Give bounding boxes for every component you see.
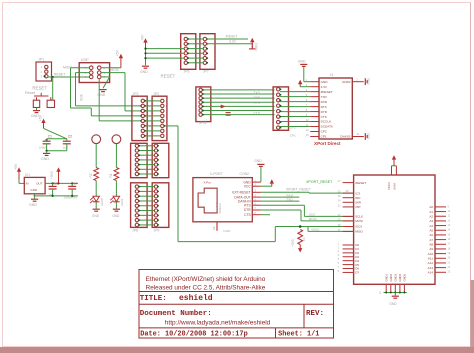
- wire: [95, 181, 97, 197]
- svg-text:IN: IN: [26, 181, 29, 185]
- XPort module X1: [319, 78, 352, 139]
- svg-text:JP10: JP10: [199, 121, 207, 125]
- svg-text:+3V3: +3V3: [291, 239, 295, 247]
- svg-text:C4: C4: [73, 181, 77, 185]
- svg-text:JP1: JP1: [38, 58, 44, 62]
- svg-text:A14: A14: [428, 270, 434, 274]
- svg-text:CHASS: CHASS: [340, 135, 351, 139]
- wires JP6-JP7: [188, 38, 204, 40]
- wire: [95, 202, 97, 208]
- pushbutton S1: [33, 100, 39, 107]
- svg-text:C3: C3: [54, 181, 58, 185]
- svg-text:LINK: LINK: [224, 229, 232, 233]
- +5V supply arrow at ICSP: [101, 67, 121, 69]
- connector JP1: [36, 62, 52, 81]
- svg-text:VCC: VCC: [244, 184, 252, 188]
- ground below LED1: [113, 208, 120, 210]
- title block: [139, 270, 334, 339]
- ethernet socket CON2: [193, 178, 252, 222]
- connector JP5 power: [152, 143, 169, 177]
- svg-text:GND: GND: [41, 157, 49, 161]
- svg-text:JP7: JP7: [203, 69, 209, 73]
- capacitor C5: [226, 112, 231, 114]
- connector ICSP: [79, 63, 109, 83]
- svg-text:GND: GND: [140, 70, 148, 74]
- svg-text:DTR: DTR: [244, 208, 251, 212]
- svg-text:100uF: 100uF: [39, 146, 48, 150]
- +3V3 arrow at X1: [299, 83, 301, 87]
- wire: [115, 202, 117, 208]
- +3V3 supply arrow at regulator: [58, 171, 60, 184]
- svg-text:DCDATA: DCDATA: [321, 125, 334, 129]
- svg-text:Released under CC 2.5, Attrib/: Released under CC 2.5, Attrib/Share-Alik…: [146, 285, 266, 292]
- +3V3 arrow above U2: [391, 166, 393, 175]
- connector JP8 analog: [131, 183, 148, 228]
- svg-text:/RD: /RD: [355, 196, 361, 200]
- svg-text:GND: GND: [92, 214, 100, 218]
- wire JP3 to bus: [164, 125, 178, 127]
- svg-text:MOSI: MOSI: [309, 217, 317, 221]
- +3V3 arrow at CON2 VCC: [261, 185, 272, 187]
- wire: [95, 144, 97, 168]
- svg-text:SCLK: SCLK: [355, 215, 363, 219]
- svg-text:/RESET: /RESET: [355, 181, 366, 185]
- svg-text:TXD: TXD: [286, 197, 293, 201]
- svg-text:TXD: TXD: [321, 95, 328, 99]
- svg-text:GND5: GND5: [403, 274, 407, 282]
- svg-text:GND: GND: [389, 302, 397, 306]
- svg-text:A2: A2: [429, 214, 433, 218]
- svg-text:JP9: JP9: [154, 229, 160, 233]
- capacitor C1: [46, 139, 48, 141]
- svg-text:VCC3: VCC3: [387, 182, 391, 190]
- svg-text:CP1: CP1: [290, 133, 296, 137]
- ground below C1 C2: [46, 151, 48, 153]
- capacitor C3: [52, 183, 54, 186]
- svg-text:Sheet: 1/1: Sheet: 1/1: [278, 331, 319, 339]
- U2 ground pins: [385, 284, 387, 292]
- connector JP11: [273, 87, 288, 130]
- LED LED1: [113, 196, 119, 201]
- connector JP7: [200, 34, 215, 70]
- svg-text:+5V: +5V: [116, 49, 120, 56]
- svg-text:/CS: /CS: [355, 191, 360, 195]
- svg-text:+5V: +5V: [14, 163, 18, 170]
- svg-text:/SCS: /SCS: [355, 225, 362, 229]
- wire RESET to JP2 header: [98, 79, 100, 121]
- svg-text:http://www.ladyada.net/make/es: http://www.ladyada.net/make/eshield: [165, 319, 271, 326]
- svg-text:/INT: /INT: [355, 205, 361, 209]
- ethernet controller U2: [354, 175, 435, 284]
- svg-text:Date: 10/20/2008 12:00:17p: Date: 10/20/2008 12:00:17p: [140, 331, 248, 339]
- wire RESET from JP1: [48, 76, 90, 78]
- svg-text:MOSI: MOSI: [355, 219, 363, 223]
- svg-text:DTR: DTR: [321, 110, 328, 114]
- svg-text:SCK: SCK: [309, 213, 316, 217]
- +5V supply arrow left of JP6: [145, 41, 147, 48]
- wires JP11 to X1: [280, 91, 310, 93]
- svg-text:GND2: GND2: [389, 274, 393, 282]
- svg-text:MISO: MISO: [312, 228, 321, 232]
- node LED0 pad: [92, 135, 101, 144]
- svg-text:JP3: JP3: [153, 92, 159, 96]
- +3V3 supply arrow: [251, 41, 253, 49]
- svg-text:A6: A6: [429, 233, 433, 237]
- wire MISO bus from ICSP: [76, 72, 90, 74]
- svg-text:FB: FB: [212, 226, 216, 230]
- svg-text:RTS: RTS: [321, 105, 327, 109]
- svg-text:+3V3: +3V3: [50, 171, 54, 179]
- svg-text:3.3V: 3.3V: [229, 39, 237, 43]
- wires JP4-JP5: [139, 145, 155, 147]
- wires JP10 to JP11: [202, 89, 274, 91]
- svg-text:CTS: CTS: [321, 115, 327, 119]
- wire /RESET from JP7: [207, 38, 248, 40]
- wire ground rail below U2: [384, 292, 407, 294]
- wire: [18, 179, 20, 183]
- net arrow: [221, 105, 226, 109]
- wire: [115, 144, 117, 168]
- svg-text:RTS: RTS: [244, 203, 251, 207]
- svg-text:A0: A0: [429, 205, 433, 209]
- svg-text:Document Number:: Document Number:: [140, 310, 212, 318]
- svg-text:GND3: GND3: [394, 274, 398, 282]
- svg-text:TXD: TXD: [254, 91, 261, 95]
- pin 2 GND stub of X1: [352, 81, 364, 83]
- svg-text:3.3V: 3.3V: [321, 85, 328, 89]
- svg-text:C1: C1: [48, 135, 52, 139]
- wire: [46, 144, 48, 151]
- svg-text:REV:: REV:: [306, 310, 324, 318]
- connector JP4 power: [131, 143, 148, 177]
- connector JP9 analog: [152, 183, 169, 228]
- wire ground rail: [33, 195, 78, 197]
- svg-text:SCK: SCK: [80, 93, 84, 101]
- svg-text:GND1: GND1: [384, 274, 388, 282]
- svg-text:ICSP: ICSP: [81, 58, 90, 62]
- svg-text:A3: A3: [429, 219, 433, 223]
- wires +5V to JP6: [146, 48, 185, 50]
- resistor R3 pullup: [298, 230, 303, 245]
- U2 address pins A0-A14: [435, 206, 446, 208]
- ground below IC1: [34, 196, 36, 199]
- svg-text:GND: GND: [30, 188, 38, 192]
- wire SCK: [261, 204, 305, 206]
- svg-text:A10: A10: [428, 252, 434, 256]
- svg-text:GND: GND: [321, 80, 329, 84]
- wire MOSI from ICSP to JP2: [101, 72, 125, 74]
- +3V3 arrow below R3: [299, 245, 301, 250]
- resistor R1: [114, 168, 119, 181]
- wires JP2-JP3: [145, 100, 161, 102]
- resistor R2: [94, 168, 99, 181]
- svg-text:R1: R1: [109, 173, 113, 177]
- wire MOSI: [261, 209, 301, 211]
- svg-text:CTS: CTS: [244, 213, 251, 217]
- wire CTS stub: [261, 214, 270, 216]
- svg-text:#RESET: #RESET: [321, 90, 333, 94]
- wire SCK bus from ICSP: [71, 67, 90, 69]
- +5V supply arrow at regulator: [18, 171, 20, 179]
- svg-text:EXT-RESET: EXT-RESET: [232, 191, 250, 195]
- svg-text:+5V: +5V: [38, 114, 42, 121]
- wire: [115, 181, 117, 197]
- svg-text:A8: A8: [429, 242, 433, 246]
- svg-text:JP8: JP8: [132, 229, 138, 233]
- svg-text:XPORT_RESET: XPORT_RESET: [286, 188, 311, 192]
- voltage regulator IC1: [24, 177, 45, 193]
- wire XPORT_RESET: [261, 191, 309, 193]
- svg-text:RXD: RXD: [254, 96, 261, 100]
- svg-text:A5: A5: [429, 228, 433, 232]
- svg-text:/WR: /WR: [355, 201, 362, 205]
- svg-text:Ethernet (XPort/WIZnet) shield: Ethernet (XPort/WIZnet) shield for Ardui…: [146, 276, 266, 283]
- svg-text:GND4: GND4: [398, 274, 402, 282]
- wire 3V3 output: [45, 182, 78, 184]
- svg-text:LED0: LED0: [100, 198, 104, 206]
- svg-text:1K: 1K: [302, 237, 306, 241]
- svg-text:+5V: +5V: [140, 34, 144, 41]
- svg-text:LED1: LED1: [120, 198, 124, 206]
- wire 3.3V from JP7: [207, 43, 253, 45]
- svg-text:eshield: eshield: [179, 294, 213, 303]
- U2 left pins: [343, 182, 354, 184]
- svg-text:A4: A4: [429, 224, 433, 228]
- svg-text:GND: GND: [367, 77, 371, 85]
- svg-text:GND: GND: [112, 214, 120, 218]
- wires JP8-JP9: [139, 186, 155, 188]
- capacitor C4: [71, 183, 73, 186]
- svg-text:TITLE:: TITLE:: [140, 295, 167, 303]
- connector JP10: [196, 87, 211, 122]
- svg-text:Reset: Reset: [25, 91, 36, 95]
- connector JP6: [181, 34, 196, 70]
- svg-text:IC1: IC1: [25, 173, 30, 177]
- svg-text:R2: R2: [89, 173, 93, 177]
- wire RXD: [261, 196, 299, 198]
- svg-text:X1: X1: [330, 73, 334, 77]
- svg-text:DCCLK: DCCLK: [321, 120, 332, 124]
- +5V supply arrow at input caps: [43, 122, 45, 129]
- svg-text:X-PORT: X-PORT: [210, 172, 223, 176]
- svg-text:C2: C2: [68, 135, 72, 139]
- svg-text:GND: GND: [215, 202, 219, 208]
- svg-text:A12: A12: [428, 261, 434, 265]
- svg-text:GND: GND: [254, 159, 262, 163]
- connector JP3: [152, 96, 167, 140]
- link pin stub below CON2: [216, 222, 218, 231]
- svg-text:CON2: CON2: [240, 172, 250, 176]
- svg-text:XPort Direct: XPort Direct: [314, 141, 341, 146]
- svg-text:RESET: RESET: [54, 73, 65, 77]
- ground below U2: [394, 293, 396, 296]
- svg-text:A1: A1: [429, 210, 433, 214]
- pin 24 CHASSIS GND stub of X1: [352, 136, 364, 138]
- svg-text:RESET: RESET: [32, 86, 47, 91]
- ground below +5V rail: [142, 65, 149, 67]
- wire MISO: [307, 227, 309, 232]
- svg-text:GND: GND: [29, 203, 37, 207]
- ground below S1: [36, 108, 38, 111]
- svg-text:MOSI: MOSI: [111, 68, 119, 72]
- ground below ICSP: [101, 76, 110, 78]
- svg-text:CP1: CP1: [321, 135, 327, 139]
- svg-text:OUT: OUT: [36, 181, 43, 185]
- U2 data pins D0-D7: [343, 244, 354, 246]
- wire bus vertical: [178, 241, 275, 243]
- wire MISO net to U2: [275, 226, 353, 228]
- svg-text:A11: A11: [428, 256, 433, 260]
- svg-text:CP2: CP2: [321, 130, 327, 134]
- svg-text:D7: D7: [355, 271, 359, 275]
- LED LED0: [93, 196, 99, 201]
- svg-text:A9: A9: [429, 247, 433, 251]
- svg-text:/RESET: /RESET: [226, 34, 238, 38]
- node LED1 pad: [112, 135, 121, 144]
- svg-text:RXD: RXD: [321, 100, 328, 104]
- capacitor C2: [66, 139, 68, 141]
- svg-text:A13: A13: [428, 266, 434, 270]
- wire: [44, 128, 67, 138]
- svg-text:GND2: GND2: [342, 80, 351, 84]
- svg-text:JP2: JP2: [133, 92, 139, 96]
- svg-text:XPORT_RESET: XPORT_RESET: [306, 180, 333, 184]
- svg-text:GND: GND: [97, 93, 105, 97]
- svg-text:GND: GND: [367, 132, 371, 140]
- svg-text:RESET: RESET: [161, 73, 176, 78]
- svg-text:MISO: MISO: [355, 230, 363, 234]
- svg-text:RTS: RTS: [254, 101, 260, 105]
- svg-text:CTS: CTS: [254, 112, 260, 116]
- svg-text:X-Por: X-Por: [204, 180, 211, 184]
- svg-text:JP6: JP6: [184, 69, 190, 73]
- wire TXD: [261, 200, 299, 202]
- svg-text:GND: GND: [298, 59, 306, 63]
- svg-text:A7: A7: [429, 238, 433, 242]
- svg-text:+3V3: +3V3: [255, 43, 259, 51]
- connector JP2: [132, 96, 147, 140]
- ground below LED0: [93, 208, 100, 210]
- svg-text:3V3A: 3V3A: [393, 183, 397, 190]
